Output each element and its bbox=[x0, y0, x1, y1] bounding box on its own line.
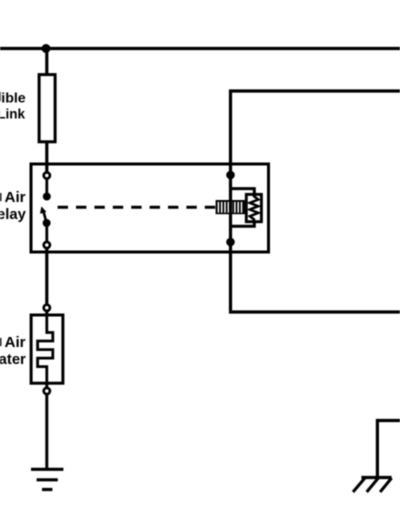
svg-text:Air: Air bbox=[4, 334, 25, 351]
svg-text:Link: Link bbox=[0, 106, 25, 121]
svg-text:Heater Relay: Heater Relay bbox=[0, 207, 27, 223]
svg-text:Heater: Heater bbox=[0, 352, 26, 368]
svg-text:Fusible: Fusible bbox=[0, 90, 26, 106]
svg-text:Air: Air bbox=[4, 189, 25, 206]
